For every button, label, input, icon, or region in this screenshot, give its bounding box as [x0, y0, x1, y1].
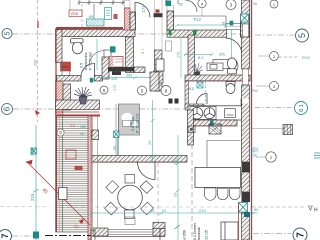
- bedroom left wall lines: [116, 104, 119, 156]
- teal tick bottom: [174, 225, 180, 229]
- cyan text 98: [166, 1, 172, 7]
- kitchen sink: [225, 109, 236, 118]
- room circle 3: [161, 86, 171, 96]
- kitchen counter: [188, 106, 243, 120]
- svg-text:85: 85: [89, 15, 93, 19]
- svg-text:8.7: 8.7: [140, 48, 145, 54]
- teal line in wall: [61, 62, 63, 80]
- grid bubble 5 right: [296, 29, 309, 42]
- svg-text:VE05: VE05: [71, 12, 79, 16]
- svg-text:26: 26: [80, 132, 84, 136]
- svg-text:0.5: 0.5: [80, 63, 84, 68]
- window right 2: [243, 69, 249, 85]
- top dim ticks far left: [78, 0, 125, 19]
- svg-text:B.4: B.4: [198, 56, 203, 60]
- table leader box: [125, 217, 135, 225]
- svg-text:216: 216: [30, 193, 35, 201]
- svg-text:240: 240: [30, 148, 35, 156]
- wc plant: [192, 63, 203, 76]
- dark corner block: [241, 15, 250, 37]
- grid bubble 6 left: [2, 104, 13, 115]
- bottom window: [108, 230, 153, 237]
- svg-text:0.2: 0.2: [189, 87, 194, 91]
- dashed line bottom left: [0, 206, 50, 208]
- green ticks on wall: [169, 30, 172, 36]
- terrace right maroon edge: [88, 116, 91, 240]
- white box above red wall: [125, 1, 131, 8]
- red niche hall: [109, 57, 123, 68]
- bathroom door leaf and arc: [81, 63, 95, 77]
- cooktop burners: [191, 107, 215, 119]
- teal dashed x82: [81, 4, 83, 29]
- red tick top: [37, 21, 39, 28]
- window frame lines west: [93, 116, 98, 228]
- grid line 6.1 right: [255, 107, 293, 109]
- top wall hatch left part: [56, 30, 135, 37]
- entry door arc: [135, 3, 150, 18]
- svg-text:281: 281: [126, 73, 133, 78]
- bathroom bottom wall left: [57, 76, 82, 82]
- black block 1: [242, 162, 251, 172]
- hall door arc: [89, 51, 104, 67]
- black block col: [243, 90, 249, 96]
- svg-text:P: 17,08 m2: P: 17,08 m2: [136, 114, 140, 133]
- section bubble right mid2: [256, 82, 279, 91]
- top wall hatch mid: [167, 30, 227, 37]
- small gap right wall: [242, 99, 249, 104]
- svg-text:Kupaonica: Kupaonica: [84, 52, 88, 70]
- X box shaft: [209, 124, 221, 134]
- teal X box vent: [197, 82, 203, 88]
- level marker H right: [252, 206, 318, 214]
- section bubble right mid1: [258, 52, 310, 61]
- wc toilet lower: [226, 82, 235, 94]
- red arrow mid: [35, 110, 40, 115]
- svg-text:58: 58: [222, 21, 227, 26]
- cyan vert dim x231: [231, 30, 233, 75]
- dark bar wall: [108, 67, 134, 71]
- small box lobby: [166, 41, 172, 51]
- cooktop outline: [190, 107, 216, 120]
- grid bubble 7 right: [293, 228, 307, 240]
- grid line 7 right: [253, 233, 291, 235]
- door arc top room: [226, 38, 243, 55]
- top door arc small: [185, 0, 197, 12]
- red label box top: [69, 10, 82, 16]
- red wall line top: [56, 27, 123, 29]
- bottom wall left seg: [93, 228, 108, 236]
- svg-text:174: 174: [141, 5, 146, 13]
- bedroom door arc: [138, 162, 156, 180]
- wall right kitchen top: [241, 99, 245, 111]
- teal X marker top wall: [241, 14, 249, 22]
- kitchen cabinet line: [207, 141, 241, 168]
- wall band y75: [185, 75, 250, 81]
- window right 1: [243, 24, 249, 37]
- dim line top middle: [175, 24, 228, 27]
- svg-text:PVV: PVV: [302, 55, 310, 60]
- bottom wall right seg: [153, 228, 165, 236]
- cyan shaft hatch: [87, 19, 105, 26]
- wall below kitchen: [190, 120, 237, 126]
- svg-text:7: 7: [0, 233, 10, 238]
- dim line y213: [89, 212, 258, 215]
- toilet bathroom: [71, 39, 84, 54]
- right wall seg1: [242, 0, 250, 24]
- hall lower wall vertical x152: [150, 72, 159, 91]
- wc sink counter: [207, 63, 223, 71]
- dashed line y207: [60, 206, 240, 208]
- chairs: [105, 175, 154, 219]
- teal X marker wall: [239, 203, 248, 213]
- cyan label box: [105, 8, 112, 20]
- maroon line bottom wall: [91, 236, 165, 238]
- threshold bar corridor top: [154, 13, 163, 17]
- grid bubble 5 left: [2, 29, 12, 39]
- svg-text:155: 155: [80, 125, 86, 129]
- svg-text:5: 5: [4, 31, 11, 35]
- svg-text:H: H: [314, 208, 318, 214]
- section bubble right mid3: [252, 150, 276, 163]
- teal squares at step: [230, 21, 234, 26]
- white box on terrace: [59, 188, 68, 200]
- wall bulge x154: [154, 71, 164, 83]
- svg-text:172: 172: [177, 52, 181, 58]
- red mark corridor top: [156, 10, 160, 13]
- grid line 7 across terrace: [45, 235, 91, 237]
- small table bottom right: [221, 222, 238, 240]
- svg-text:boravak: boravak: [197, 227, 201, 240]
- svg-text:50: 50: [179, 3, 183, 7]
- svg-text:39: 39: [253, 2, 257, 6]
- right wall seg2: [242, 37, 250, 69]
- wall vertical x154: [155, 50, 163, 91]
- grid line 7 left: [12, 235, 33, 237]
- svg-text:210: 210: [199, 208, 206, 213]
- svg-text:7: 7: [295, 232, 306, 238]
- maroon line on wall: [185, 80, 250, 82]
- svg-text:6: 6: [3, 106, 12, 111]
- bathroom right wall: [126, 37, 134, 73]
- top circle small: [198, 0, 206, 16]
- dashed section vertical x158: [157, 163, 159, 240]
- svg-text:172: 172: [113, 85, 117, 91]
- svg-text:1.1: 1.1: [70, 124, 75, 128]
- terrace deck: [56, 116, 89, 232]
- svg-text:26: 26: [147, 140, 152, 145]
- black block 2: [242, 192, 251, 202]
- wall kitchen-bedroom vertical: [188, 110, 194, 145]
- terrace red mark low: [75, 166, 83, 170]
- gray dashed section vertical: [191, 128, 193, 240]
- svg-text:0.6 Soba: 0.6 Soba: [131, 117, 135, 131]
- svg-text:P12: P12: [194, 17, 202, 22]
- hall door leaf rect: [104, 50, 111, 66]
- svg-text:P: 3,57 m2: P: 3,57 m2: [89, 52, 93, 70]
- island stools: [205, 188, 241, 200]
- teal tick at door: [90, 78, 94, 83]
- teal box bottom left: [33, 232, 39, 239]
- entry wall edge lines: [155, 0, 163, 50]
- bottom wall step: [153, 223, 165, 229]
- svg-text:W18: W18: [62, 65, 69, 69]
- red wall line above terrace: [57, 115, 100, 117]
- wc toilet upper: [227, 58, 236, 74]
- svg-text:x=356: x=356: [183, 230, 187, 240]
- svg-text:220: 220: [173, 158, 178, 165]
- bathroom dim line: [96, 39, 98, 70]
- wall vertical x102: [102, 57, 109, 79]
- svg-text:90: 90: [254, 207, 259, 212]
- grid bubble 7 left: [0, 230, 12, 240]
- red small box: [114, 14, 118, 19]
- top room line: [171, 15, 226, 17]
- red wall entry left: [125, 8, 131, 30]
- teal X box bedroom: [114, 131, 120, 138]
- white shaft box on wall: [156, 59, 164, 71]
- wall piece right of bar: [134, 67, 145, 73]
- terrace joint lines: [62, 116, 64, 232]
- wall stubs left of kitchen: [169, 99, 173, 104]
- svg-text:120: 120: [111, 77, 117, 81]
- svg-text:35L: 35L: [219, 52, 226, 57]
- wall piece left kitchen top: [185, 81, 189, 109]
- wall pier living room left: [92, 130, 99, 140]
- svg-text:41: 41: [162, 208, 167, 213]
- teal dim WC room: [184, 53, 214, 56]
- terrace red label box: [66, 150, 76, 159]
- top circle 2: [226, 0, 236, 10]
- cyan dim vertical x178: [176, 135, 180, 240]
- thin vertical line x70: [69, 0, 71, 10]
- teal box hall door: [110, 46, 116, 52]
- left wall red hatch lower: [56, 80, 64, 116]
- cyan dim vertical left: [34, 125, 39, 240]
- section bubble right top: [270, 0, 278, 8]
- right wall seg3: [242, 85, 250, 162]
- grid line 6 left: [13, 108, 250, 110]
- svg-text:5: 5: [297, 33, 307, 38]
- star box: [188, 126, 195, 133]
- teal X tick upper: [31, 148, 37, 154]
- teal marks right edge: [314, 153, 320, 158]
- cyan dim vertical x152.5: [151, 100, 155, 163]
- detail box right: [252, 125, 293, 135]
- red label block on wall: [61, 62, 71, 71]
- bathroom bottom wall right: [95, 76, 103, 82]
- teal dim line lobby: [180, 38, 182, 78]
- terrace red left edge: [56, 116, 58, 232]
- svg-text:NPV: NPV: [251, 147, 259, 151]
- plant lower room: [74, 87, 92, 104]
- room circle 1: [100, 86, 108, 94]
- svg-text:150: 150: [252, 154, 258, 158]
- red dashed axis vertical left: [37, 0, 39, 122]
- wall left of WC vertical: [188, 35, 195, 81]
- kitchen island: [195, 167, 241, 187]
- corridor lines top: [167, 0, 174, 11]
- left wall black hatch lower: [63, 84, 71, 110]
- wall below plant room: [56, 100, 100, 110]
- teal line below closet: [117, 135, 119, 155]
- threshold thick part: [112, 71, 121, 75]
- room circle 2: [138, 86, 147, 95]
- grid line 5 right: [255, 34, 294, 36]
- right wall seg5: [242, 213, 250, 240]
- black wall entry stub: [130, 12, 136, 30]
- teal tick right wall bottom: [244, 212, 250, 217]
- wall right of entry: [167, 11, 174, 30]
- red wall line left: [55, 28, 57, 116]
- left wall hatch upper: [56, 30, 63, 63]
- svg-text:PW: PW: [252, 89, 258, 93]
- svg-text:95: 95: [113, 146, 117, 150]
- top edge dim marks right: [166, 0, 178, 4]
- svg-text:290: 290: [34, 60, 38, 66]
- desk top room: [213, 60, 238, 73]
- svg-text:29: 29: [173, 192, 178, 197]
- gray closet block: [119, 104, 140, 135]
- maroon line right wall: [251, 0, 253, 240]
- top wall step right (opening): [226, 24, 242, 30]
- right wall seg4: [242, 172, 250, 192]
- svg-text:6.1: 6.1: [299, 104, 305, 112]
- hall dim line: [97, 76, 156, 79]
- svg-text:12.05: 12.05: [204, 229, 209, 240]
- wall niche white: [56, 62, 70, 80]
- grid bubble 6.1 right: [295, 102, 308, 115]
- grid line 5 left: [12, 33, 240, 35]
- svg-text:10: 10: [150, 208, 155, 213]
- dining table: [118, 185, 143, 210]
- kitchen door arc: [197, 94, 208, 105]
- terrace circle symbol: [57, 129, 64, 136]
- red diagonal leader: [25, 160, 90, 231]
- bedroom bottom wall: [91, 156, 187, 163]
- red line right bottom: [238, 204, 240, 240]
